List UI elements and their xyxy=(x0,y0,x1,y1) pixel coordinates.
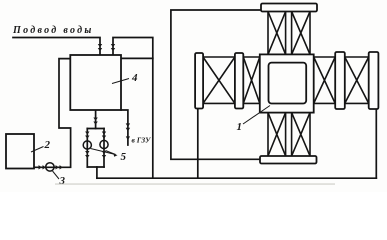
press 1: top arm bay 2 diagonals xyxy=(292,12,310,55)
press 1: top arm bay edges xyxy=(268,12,310,55)
leader line label 5 from right pump xyxy=(106,151,116,155)
press 1: left end plate xyxy=(195,53,203,109)
press 1: bottom arm bay 1 diagonals xyxy=(268,113,286,156)
press 1: right middle plate xyxy=(335,52,345,109)
wire: bottom main line xyxy=(97,177,376,179)
arrow pair: GZU drain xyxy=(126,123,130,140)
wire: left column pipe xyxy=(197,106,199,178)
press 1: bottom plate xyxy=(260,156,317,164)
wire: water supply header right segment xyxy=(113,38,153,179)
wire: pump discharge leg xyxy=(96,167,98,178)
press 1: left arm bay 2 diagonals xyxy=(243,57,259,103)
wire: right pump branch xyxy=(103,129,105,168)
svg-text:2: 2 xyxy=(44,139,51,151)
press 1: right arm bay 1 diagonals xyxy=(314,57,336,103)
arrow pair: left pump outlet xyxy=(85,151,89,158)
press 1: central box outer xyxy=(260,54,314,112)
press 1: top arm bay 1 diagonals xyxy=(268,12,286,55)
press 1: right arm bay edges xyxy=(314,57,369,103)
arrow pair: right pump outlet xyxy=(102,151,106,158)
arrow pair: apparatus 4 outlet xyxy=(93,118,97,125)
svg-text:3: 3 xyxy=(59,175,66,187)
wire: tank 2 to pump 3 to apparatus 4 xyxy=(34,59,71,168)
arrow pair: tank 2 outlet xyxy=(39,165,46,169)
svg-text:в ГЗУ: в ГЗУ xyxy=(132,136,152,145)
pump 3 xyxy=(46,163,54,171)
press 1: left middle plate xyxy=(235,53,243,109)
arrow pair: water branch 1 xyxy=(98,44,102,51)
press 1: left arm bay edges xyxy=(203,12,369,157)
press 1: left arm bay 1 diagonals xyxy=(203,57,235,103)
press 1: right end plate xyxy=(369,52,379,109)
wire: left pump branch xyxy=(86,129,88,168)
press 1: bottom arm bay edges xyxy=(268,113,310,156)
tank 2 xyxy=(6,134,34,169)
wire: right column pipe xyxy=(375,106,377,178)
wire: water supply header xyxy=(13,38,100,55)
wire: pump manifold top bar xyxy=(87,128,104,130)
scan smudge bottom xyxy=(55,183,335,184)
press 1: bottom arm bay 2 diagonals xyxy=(292,113,310,156)
pump 5 right xyxy=(100,140,108,148)
leader line label 5 from left pump xyxy=(91,149,116,155)
wire: branch into apparatus 4 right side xyxy=(121,57,153,59)
wire: drain to GZU xyxy=(121,110,128,145)
arrow pair: right pump inlet xyxy=(102,132,106,139)
leader line label 1 xyxy=(243,106,270,125)
pump 5 left xyxy=(83,141,91,149)
leader line label 2 xyxy=(31,147,44,153)
wire: pump manifold bottom bar xyxy=(87,166,104,168)
svg-text:5: 5 xyxy=(121,151,127,163)
svg-text:4: 4 xyxy=(131,72,138,84)
wire: apparatus 4 outlet down to pumps xyxy=(95,110,97,129)
arrow pair: water branch 2 xyxy=(111,44,115,51)
arrow pair: left pump inlet xyxy=(85,132,89,139)
press 1: central box inner xyxy=(269,63,307,104)
arrow pair: pump 3 outlet xyxy=(56,165,63,169)
apparatus 4 xyxy=(70,55,121,110)
leader arrowhead label 5 xyxy=(113,153,117,156)
svg-text:Подвод воды: Подвод воды xyxy=(12,25,94,36)
svg-text:1: 1 xyxy=(237,121,243,133)
press 1: top plate xyxy=(261,4,317,12)
leader line label 3 xyxy=(53,171,60,179)
press 1: right arm bay 2 diagonals xyxy=(345,57,369,103)
leader line label 4 xyxy=(112,79,129,84)
wire: press loop top and left xyxy=(171,10,261,159)
